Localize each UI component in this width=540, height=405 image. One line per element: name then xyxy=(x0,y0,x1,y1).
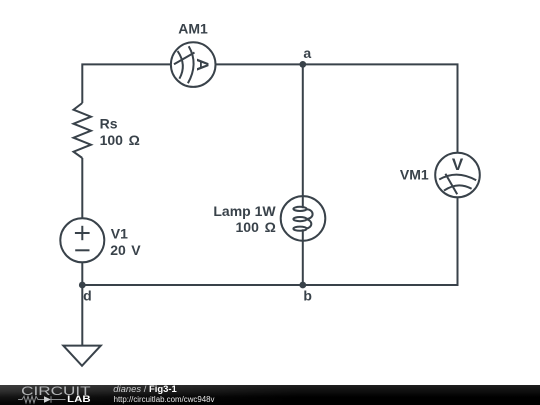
svg-text:V: V xyxy=(452,155,464,174)
node b junction dot xyxy=(299,282,306,289)
ground xyxy=(63,346,101,366)
wire ground stem xyxy=(81,285,83,346)
svg-text:100 Ω: 100 Ω xyxy=(100,132,140,148)
lamp LAMP1 xyxy=(281,196,326,241)
footer logo CircuitLab xyxy=(0,383,110,405)
wire left middle (resistor to V1) xyxy=(81,158,83,218)
svg-text:LAB: LAB xyxy=(67,394,91,404)
wire top-mid (ammeter to node a) xyxy=(215,63,302,65)
svg-text:100 Ω: 100 Ω xyxy=(236,219,276,235)
footer bar xyxy=(0,385,540,405)
logo resistor zigzag + diode squiggle xyxy=(18,396,65,403)
wire top-left (rail to ammeter, with corner) xyxy=(82,64,171,103)
wire right lower + bottom rail (corner) xyxy=(82,197,457,285)
svg-text:VM1: VM1 xyxy=(400,167,429,183)
svg-text:b: b xyxy=(303,288,312,304)
svg-text:A: A xyxy=(193,58,212,71)
svg-text:V1: V1 xyxy=(111,225,128,241)
wire left lower (V1 to node d) xyxy=(81,262,83,285)
resistor Rs xyxy=(74,103,92,158)
wire lamp branch upper (node a to lamp) xyxy=(302,64,304,196)
node a junction dot xyxy=(299,61,306,68)
svg-text:a: a xyxy=(303,45,311,61)
node d junction dot xyxy=(79,282,86,289)
footer url line xyxy=(114,395,215,404)
wire lamp branch lower (lamp to node b) xyxy=(302,241,304,285)
wire top-right (node a to right corner, down to voltmeter) xyxy=(303,64,458,152)
voltage source V1 xyxy=(60,218,104,262)
voltmeter VM1 xyxy=(435,153,480,198)
svg-text:AM1: AM1 xyxy=(178,21,208,37)
footer credit line xyxy=(113,385,176,394)
svg-text:Rs: Rs xyxy=(100,116,118,132)
svg-text:Lamp 1W: Lamp 1W xyxy=(213,203,276,219)
svg-text:d: d xyxy=(83,288,92,304)
ammeter AM1 xyxy=(171,42,216,87)
svg-text:20 V: 20 V xyxy=(110,242,141,258)
